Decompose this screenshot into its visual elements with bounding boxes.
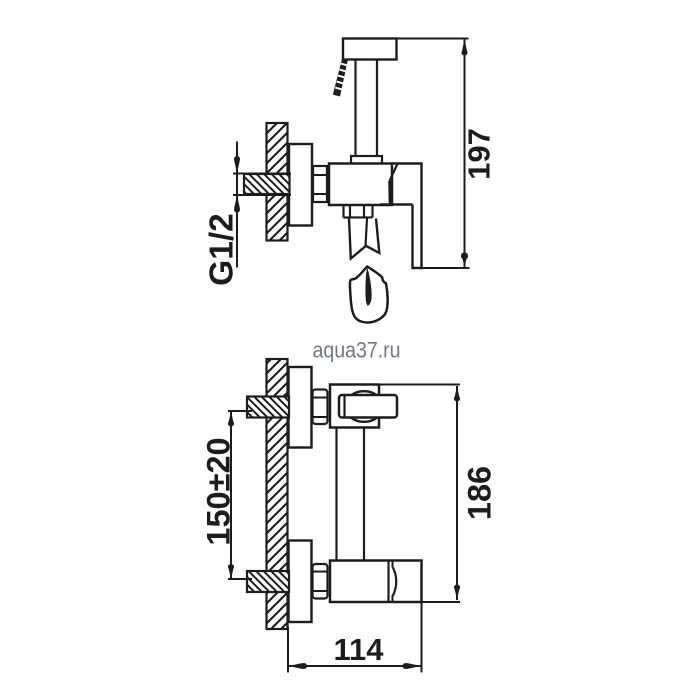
svg-text:aqua37.ru: aqua37.ru: [312, 338, 400, 363]
connecting column: [335, 428, 337, 561]
handle (lever) side view: [392, 164, 422, 269]
bottom escutcheon plate: [289, 541, 312, 623]
hanging sprayer stick (hatched): [333, 59, 348, 97]
supply pipe through wall (hatched): [244, 174, 290, 194]
186 bottom extension line: [422, 601, 461, 603]
pipe flange: [351, 156, 382, 164]
svg-text:197: 197: [462, 128, 497, 180]
handle pivot ellipse: [345, 391, 383, 422]
shower holder bracket: [343, 39, 397, 60]
svg-text:150±20: 150±20: [201, 437, 237, 545]
dimension 114: [287, 627, 289, 673]
water stream: [349, 219, 379, 259]
top escutcheon plate: [289, 367, 312, 448]
top mixer body front: [330, 385, 379, 428]
bottom mixer body front: [330, 561, 422, 603]
mixer body side view: [329, 164, 392, 206]
dimension G1/2: [236, 142, 238, 268]
dimension 186: [456, 386, 458, 600]
bottom connection nut front: [313, 564, 328, 599]
dimension 150±20: [230, 411, 232, 580]
svg-text:186: 186: [462, 466, 498, 520]
connection nut side view: [313, 166, 327, 202]
top extension line: [342, 38, 469, 40]
handle front view: [339, 395, 397, 418]
186 top extension line: [330, 384, 460, 386]
svg-text:G1/2: G1/2: [204, 213, 241, 286]
wall (hatched) front view: [267, 359, 288, 629]
svg-text:114: 114: [333, 632, 384, 667]
shower pipe column: [354, 60, 356, 157]
dimension 197: [464, 39, 466, 269]
top supply pipe (hatched): [247, 397, 289, 418]
wall (hatched) side view: [267, 123, 288, 241]
water drop: [350, 267, 388, 323]
bottom supply pipe (hatched): [247, 571, 289, 592]
escutcheon plate side view: [289, 144, 312, 226]
outlet aerator hex: [344, 206, 373, 218]
top connection nut front: [313, 390, 328, 425]
